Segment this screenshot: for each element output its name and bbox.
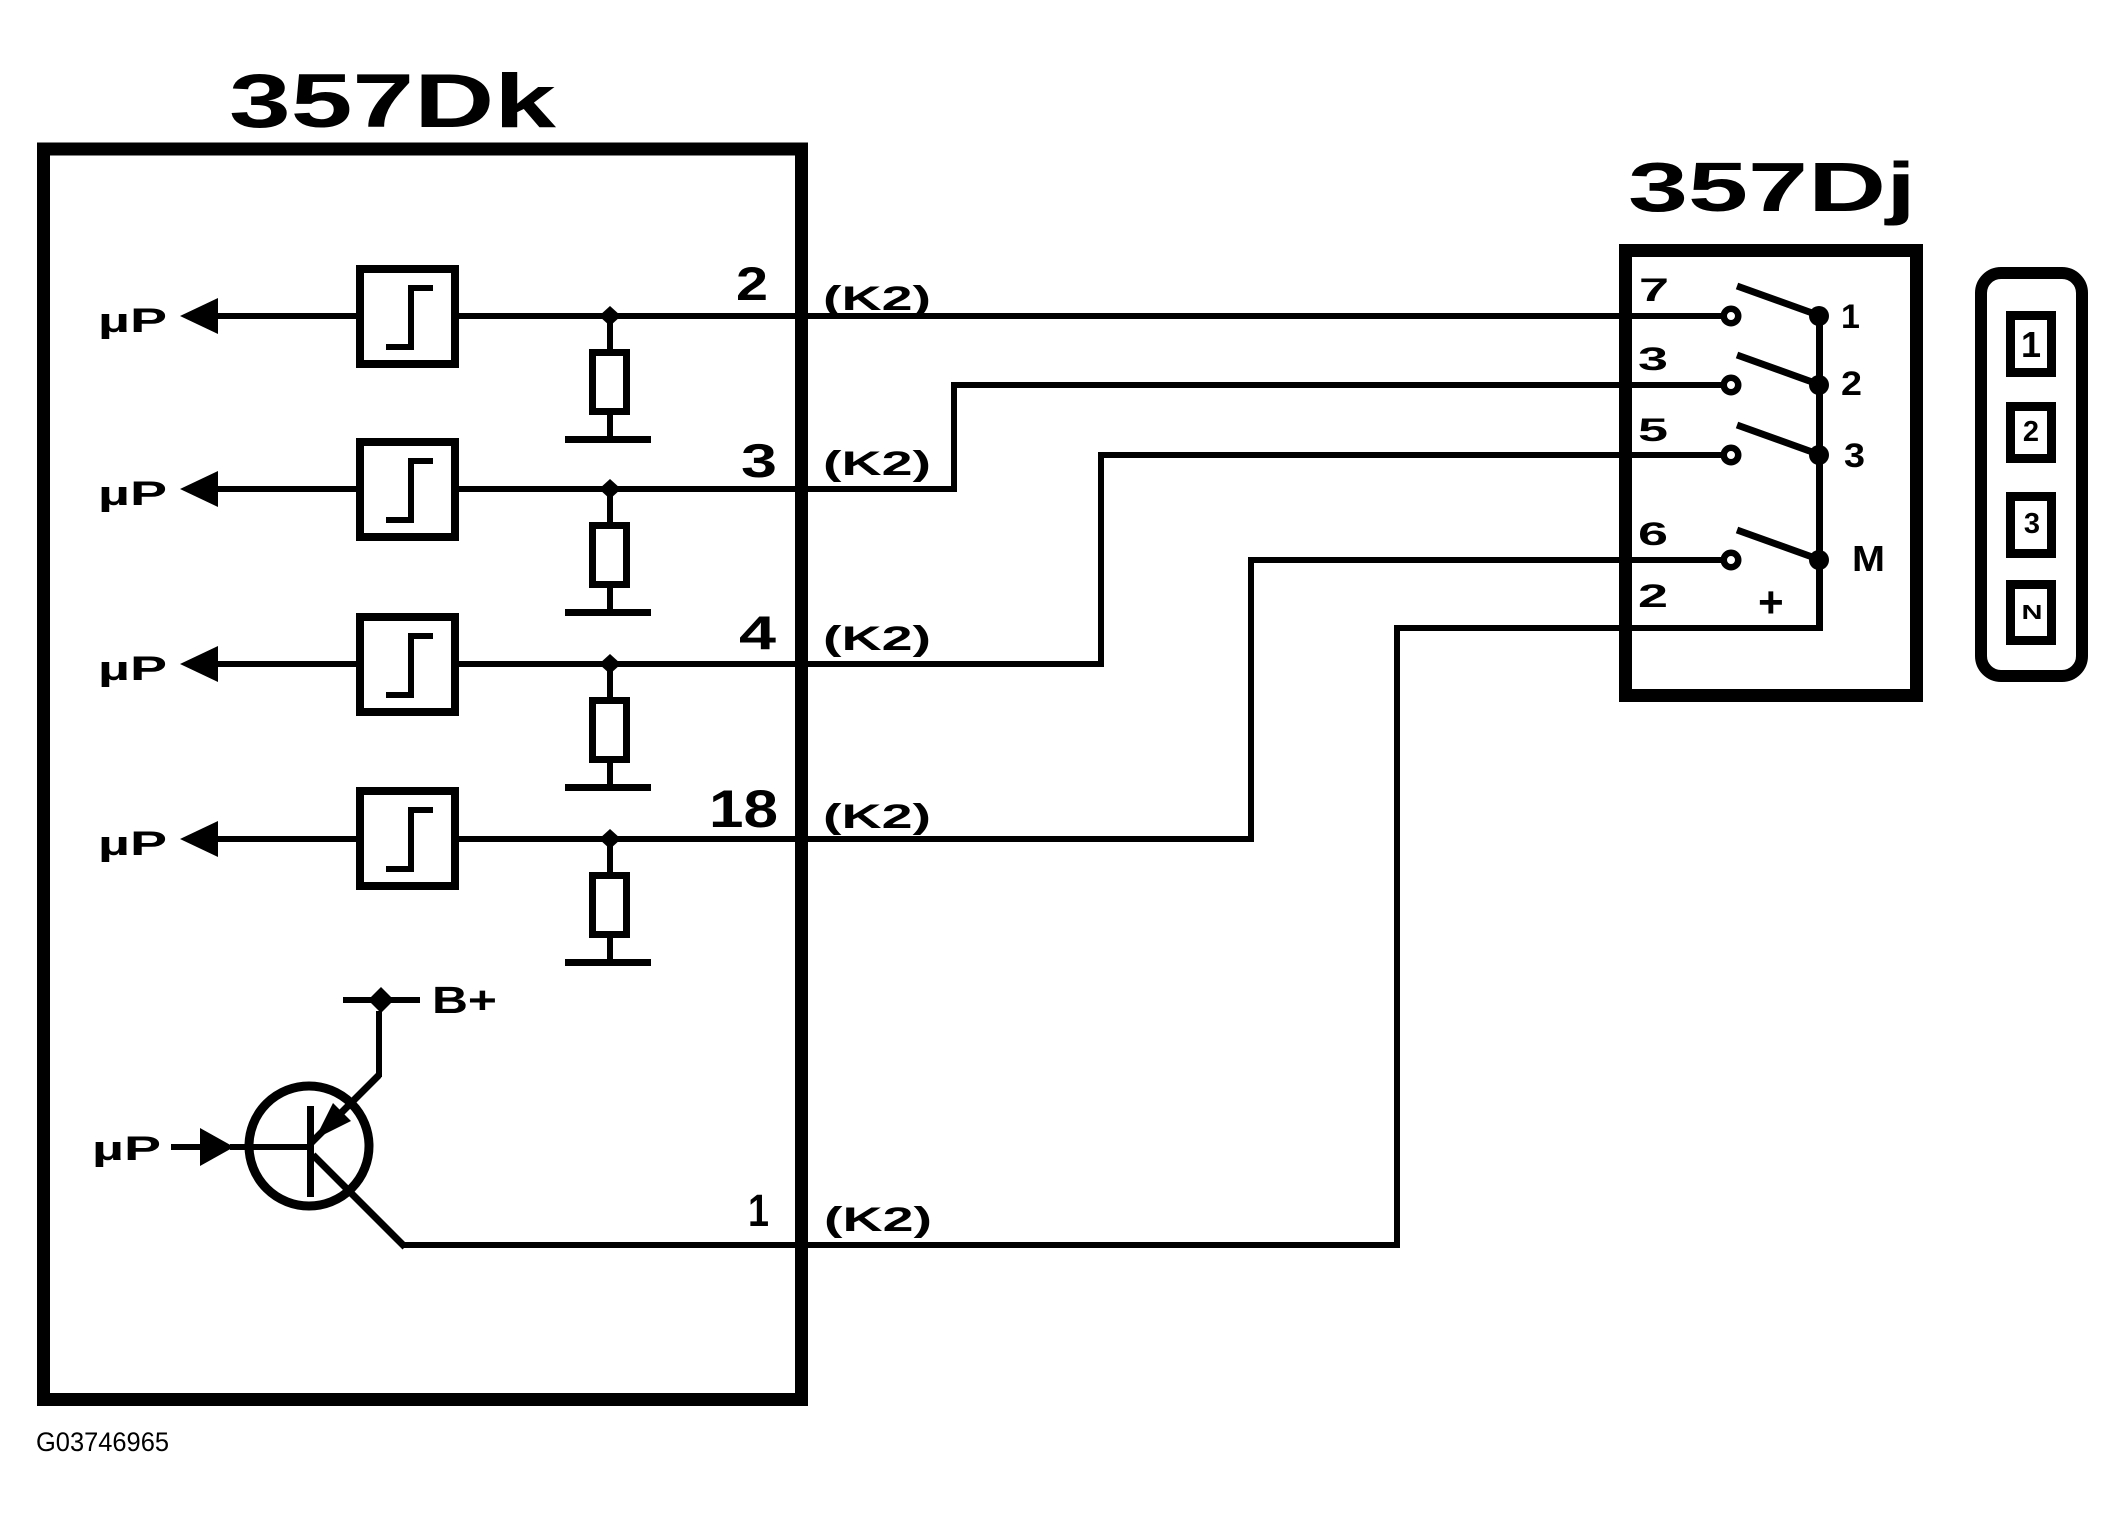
svg-text:+: +: [1758, 578, 1784, 627]
connector cavity 3: [2011, 497, 2052, 554]
switch contact circle pin5: [1724, 448, 1739, 463]
arrow to uP row1: [180, 298, 218, 334]
svg-text:1: 1: [1841, 298, 1860, 336]
wire row3 jog vertical: [1098, 452, 1104, 667]
arrow into transistor base: [200, 1128, 234, 1166]
svg-text:M: M: [1852, 538, 1885, 579]
transistor Q1 emitter arrowhead: [315, 1103, 351, 1139]
wire row1 left: [218, 313, 356, 319]
svg-text:3: 3: [741, 434, 777, 487]
schmitt trigger U2 step symbol: [408, 458, 414, 523]
junction node row1: [599, 306, 621, 326]
svg-text:2: 2: [1841, 365, 1862, 403]
svg-text:3: 3: [1638, 341, 1668, 377]
arrow to uP row3: [180, 646, 218, 682]
wire emitter vertical to B+: [376, 1011, 382, 1077]
connector cavity 4: [2011, 585, 2052, 641]
svg-text:6: 6: [1638, 516, 1668, 552]
switch contact circle pin7: [1724, 309, 1739, 324]
switch arm 1: [1737, 286, 1815, 314]
svg-text:(K2): (K2): [823, 620, 931, 658]
transistor Q1 collector diagonal: [313, 1155, 405, 1247]
svg-text:(K2): (K2): [823, 280, 931, 318]
ground row2: [565, 609, 651, 616]
junction node row3: [599, 654, 621, 674]
transistor Q1 circle: [249, 1086, 369, 1206]
wire row2 left: [218, 486, 356, 492]
node B+ diamond: [368, 987, 394, 1013]
switch node dot 1: [1809, 306, 1829, 326]
svg-text:(K2): (K2): [823, 798, 931, 836]
wire arrow to base: [230, 1144, 308, 1150]
wire common vertical in 357Dj: [1816, 316, 1823, 631]
wire row3 left: [218, 661, 356, 667]
switch arm 3: [1737, 425, 1815, 453]
schmitt trigger U1 box: [360, 269, 455, 364]
svg-text:µP: µP: [98, 302, 167, 340]
switch arm 2: [1737, 355, 1815, 383]
wire row1 right (pin 2 to 357Dj pin 7): [459, 313, 1722, 319]
resistor R1: [593, 353, 627, 412]
transistor Q1 emitter diagonal: [311, 1075, 379, 1143]
svg-text:G03746965: G03746965: [36, 1427, 169, 1457]
connector cavity 1: [2011, 316, 2052, 373]
svg-text:(K2): (K2): [824, 1201, 932, 1239]
wire row2 upper run to 357Dj pin 3: [951, 382, 1722, 388]
wire row3 right (pin 4): [459, 661, 1104, 667]
switch node dot M: [1809, 550, 1829, 570]
connector cavity 2: [2011, 407, 2052, 459]
resistor R2: [593, 526, 627, 585]
svg-text:357Dj: 357Dj: [1628, 148, 1916, 226]
svg-text:2: 2: [2023, 416, 2039, 448]
wire row2 right (pin 3): [459, 486, 957, 492]
junction node row2: [599, 479, 621, 499]
svg-text:B+: B+: [432, 980, 497, 1022]
wire row4 left: [218, 836, 356, 842]
svg-text:µP: µP: [98, 825, 167, 863]
svg-text:5: 5: [1638, 412, 1668, 448]
svg-text:1: 1: [748, 1185, 769, 1236]
arrow to uP row2: [180, 471, 218, 507]
module 357Dk box: [44, 149, 802, 1400]
svg-text:2: 2: [736, 257, 768, 310]
wire row2 jog vertical: [951, 383, 957, 492]
schmitt trigger U4 box: [360, 791, 455, 886]
schmitt trigger U2 box: [360, 442, 455, 537]
svg-text:4: 4: [739, 606, 776, 659]
ground row3: [565, 784, 651, 791]
switch contact circle pin6: [1724, 553, 1739, 568]
wire pin1 horizontal: [401, 1242, 1400, 1248]
ground row1: [565, 436, 651, 443]
svg-text:3: 3: [1844, 437, 1865, 475]
wire row4 upper run to 357Dj pin 6: [1248, 557, 1722, 563]
svg-text:N: N: [2022, 602, 2043, 624]
svg-text:357Dk: 357Dk: [229, 59, 557, 144]
resistor R3: [593, 701, 627, 760]
svg-text:7: 7: [1639, 272, 1669, 308]
svg-text:µP: µP: [98, 650, 167, 688]
switch node dot 3: [1809, 445, 1829, 465]
schmitt trigger U4 step symbol: [408, 807, 414, 872]
module 357Dj box: [1626, 251, 1917, 696]
switch node dot 2: [1809, 375, 1829, 395]
wire B+ horizontal: [343, 997, 420, 1003]
connector shell: [1981, 273, 2082, 676]
svg-text:µP: µP: [92, 1130, 161, 1168]
wire row4 right (pin 18): [459, 836, 1254, 842]
wire resistor stub row4: [607, 839, 613, 872]
wire pin1 upper run to 357Dj pin 2: [1394, 625, 1822, 631]
junction node row4: [599, 829, 621, 849]
schmitt trigger U3 step symbol: [408, 633, 414, 698]
svg-text:2: 2: [1638, 578, 1668, 614]
schmitt trigger U3 box: [360, 617, 455, 712]
wire pin1 jog vertical: [1394, 625, 1400, 1248]
svg-text:3: 3: [2024, 508, 2040, 540]
switch contact circle pin3: [1724, 378, 1739, 393]
transistor Q1 base bar: [307, 1106, 314, 1197]
wire row3 upper run to 357Dj pin 5: [1098, 452, 1722, 458]
wire resistor stub row1: [607, 316, 613, 349]
wire row4 jog vertical: [1248, 557, 1254, 842]
ground row4: [565, 959, 651, 966]
schmitt trigger U1 step symbol: [408, 285, 414, 350]
svg-text:1: 1: [2021, 324, 2041, 365]
wire resistor stub row2: [607, 489, 613, 522]
resistor R4: [593, 876, 627, 935]
svg-text:(K2): (K2): [823, 445, 931, 483]
arrow to uP row4: [180, 821, 218, 857]
svg-text:µP: µP: [98, 475, 167, 513]
wire resistor stub row3: [607, 664, 613, 697]
wire uP to arrow: [171, 1144, 200, 1150]
svg-text:18: 18: [709, 780, 778, 839]
switch arm M: [1737, 530, 1815, 558]
